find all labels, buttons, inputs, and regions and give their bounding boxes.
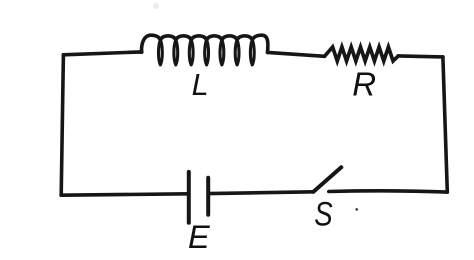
wire top-left segment	[63, 52, 141, 55]
wire bottom-middle segment	[208, 192, 313, 194]
svg-text:S: S	[314, 195, 333, 234]
svg-text:E: E	[188, 219, 210, 255]
battery E positive plate	[187, 172, 191, 223]
battery E negative plate	[206, 178, 210, 215]
inductor L	[142, 35, 268, 65]
switch S blade	[313, 167, 341, 192]
wire left vertical	[61, 55, 63, 195]
stray dot	[355, 208, 358, 211]
faint smudge	[153, 3, 159, 9]
svg-text:L: L	[192, 68, 209, 102]
wire bottom-left segment	[61, 194, 189, 195]
wire top-right segment	[398, 56, 443, 57]
resistor R	[325, 47, 399, 61]
wire right vertical	[443, 57, 447, 192]
wire bottom-right segment	[329, 191, 448, 192]
wire top-middle segment	[268, 52, 325, 56]
svg-text:R: R	[352, 65, 376, 102]
